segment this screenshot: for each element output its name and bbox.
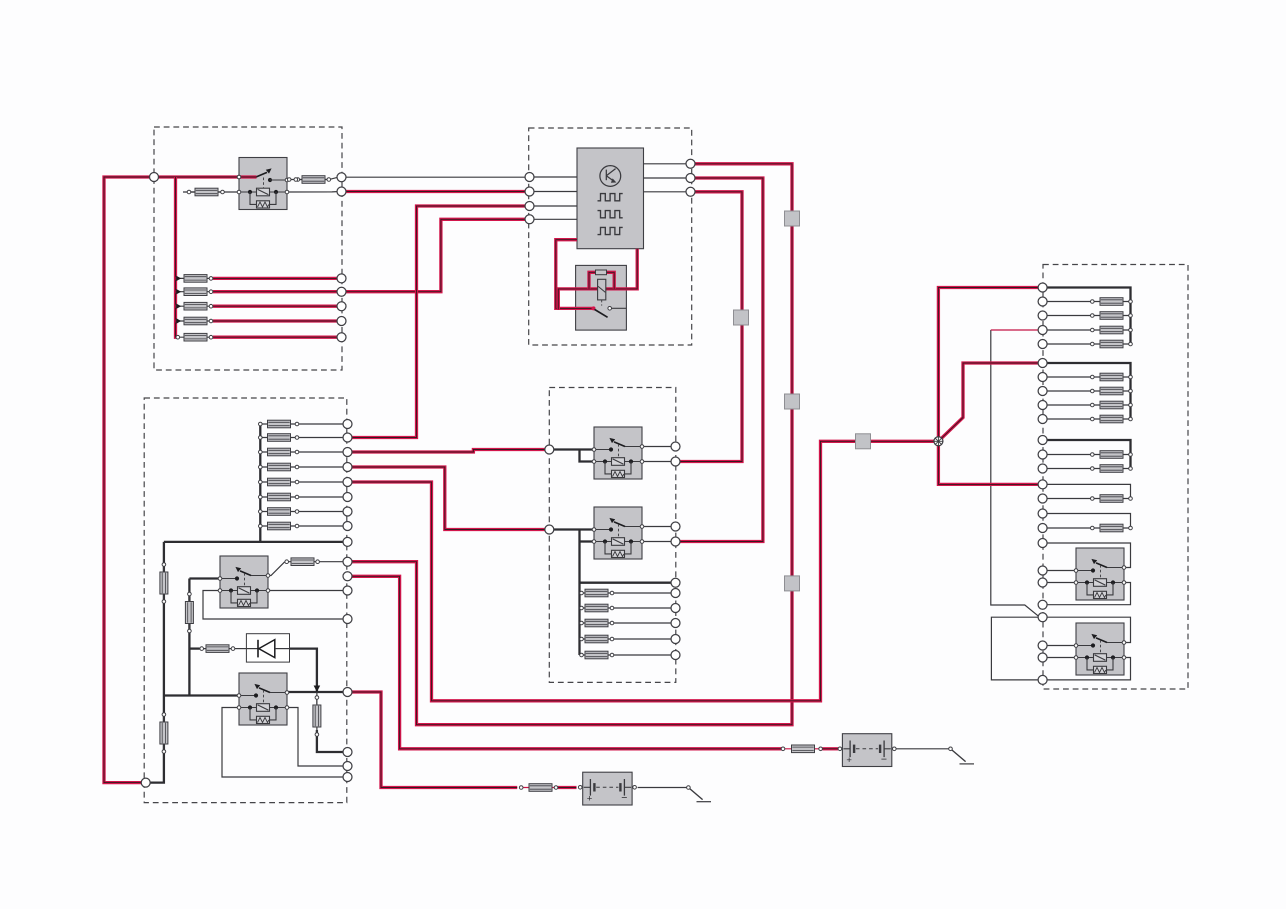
wire: left supply bus with fuses	[150, 542, 164, 783]
svg-text:−: −	[621, 792, 627, 804]
control module A1	[577, 148, 644, 249]
connector: A1 left pin3	[525, 202, 534, 211]
wire: middle box fuse row 1 lead	[614, 592, 671, 594]
connector: right box pin23	[1038, 641, 1047, 650]
connector: K1 output	[337, 173, 346, 182]
fuse F6 (bank A row4)	[180, 317, 213, 325]
wire: K6 input lead	[1047, 570, 1074, 572]
wire: battery G2 negative lead	[638, 787, 687, 789]
fuse F4 (bank A row2)	[180, 288, 213, 296]
wire: fuse row 1 lead to connector	[299, 423, 343, 425]
fuse F23 (K4 supply)	[185, 592, 193, 633]
wire (red): A2 feed loop left	[556, 240, 592, 309]
fuse F18 (bank B row6)	[259, 493, 299, 501]
connector: K2 switch out	[671, 442, 680, 451]
wire (red): main feed left drop	[104, 177, 239, 783]
connector: bank A row2	[337, 287, 346, 296]
wire: fuse row 4 lead to connector	[299, 466, 343, 468]
wire (red): fuse bank stub row1	[176, 277, 179, 280]
connector: K3 coil out	[671, 537, 680, 546]
wire: A1 left pin3 lead	[534, 205, 577, 207]
wire: K4 switch supply chain	[188, 579, 190, 696]
fuse F7 (bank A row5)	[176, 333, 213, 341]
fuse F2 (K1 output)	[296, 176, 331, 184]
wire (red): fuse to battery G2	[558, 786, 577, 789]
wire: A1 right pin3 lead	[644, 191, 687, 193]
relay K3	[592, 507, 644, 559]
wire: K7 coil lead	[1047, 657, 1074, 659]
fuse F38 (right g3 r2)	[1091, 465, 1133, 473]
fuse F31 (right g1 r3)	[1091, 326, 1133, 334]
wire: right box group1 bus	[1047, 288, 1131, 345]
wire: K1 output to fuse F2	[286, 179, 302, 181]
wire: K6 switch out loop	[1047, 543, 1131, 568]
connector: bank A row1	[337, 274, 346, 283]
connector: K1 coil out	[337, 187, 346, 196]
connector: middle fuse row5	[671, 651, 680, 660]
fuse F34 (right g2 r2)	[1091, 387, 1133, 395]
wire: group2 row4 lead	[1047, 418, 1091, 420]
switch S1 (open to ground)	[949, 747, 974, 764]
wire: group1 row4 lead	[1047, 343, 1091, 345]
wire (red): feed into K1 pivot	[239, 175, 257, 178]
wire: top-left box to module A1 pin1	[346, 176, 525, 178]
wire: group4 row lead	[1047, 498, 1091, 500]
wire (red): connector to battery G1 feed	[352, 576, 782, 749]
fuse F33 (right g2 r1)	[1091, 373, 1133, 381]
wire: fuse tap at K5 output	[316, 692, 318, 704]
wire (red): fuse bank stub row3	[176, 305, 179, 308]
connector: right box pin13	[1038, 464, 1047, 473]
wire: A1 left pin2 lead	[534, 191, 577, 193]
component box: fuse/relay box right (dashed)	[1043, 265, 1188, 690]
A2 heater coil	[598, 279, 606, 305]
wire: K1 coil feed stub	[183, 191, 239, 193]
fuse F35 (right g2 r3)	[1091, 401, 1133, 409]
wire: fuse group bus left (bottom-left box)	[259, 424, 261, 542]
wire (red): splice to group2 feed	[941, 363, 1038, 438]
wire: distribution row	[164, 541, 343, 543]
inline connector J3	[785, 394, 800, 409]
A1 icon: pulse wave 2	[598, 211, 623, 218]
fuse F15 (bank B row3)	[259, 448, 299, 456]
inline connector J1	[785, 211, 800, 226]
wire: K2 coil branch	[580, 450, 595, 462]
wire: fuse row 5 lead to connector	[299, 481, 343, 483]
fuse F37 (right g3 r1)	[1091, 451, 1133, 459]
connector: right box pin9	[1038, 401, 1047, 410]
wire: fuse row 6 lead to connector	[299, 496, 343, 498]
connector: K4 coil right	[343, 586, 352, 595]
fuse F17 (bank B row5)	[259, 478, 299, 486]
relay K4	[218, 556, 270, 608]
relay K1	[237, 158, 289, 210]
relay K7	[1074, 623, 1126, 675]
wire: K2 coil out lead	[642, 461, 671, 463]
relay K2	[592, 427, 644, 479]
connector: bank B row3	[343, 448, 352, 457]
A1 icon: intermittent timer	[600, 166, 621, 187]
connector: right box pin5	[1038, 340, 1047, 349]
wire (red): fuse row4 to connector	[213, 319, 337, 322]
relay K6	[1074, 548, 1126, 600]
wire: fuse row 7 lead to connector	[299, 511, 343, 513]
inline connector J2	[734, 310, 749, 325]
wire: fuse row 8 lead to connector	[299, 525, 343, 527]
connector: A1 right pin2	[686, 174, 695, 183]
switch S2 (open to ground)	[687, 786, 711, 802]
wire: K7 coil out loop	[1047, 658, 1131, 680]
fuse F28 (battery G2)	[519, 784, 557, 792]
K1 input pin	[237, 175, 241, 179]
fuse F27 (battery G1)	[781, 745, 822, 753]
wire (red): fuse to battery G1	[822, 747, 838, 750]
battery G1	[838, 734, 896, 767]
connector: right box pin18	[1038, 539, 1047, 548]
connector: bank B row6	[343, 493, 352, 502]
wire: group2 row1 lead	[1047, 376, 1091, 378]
fuse F14 (bank B row2)	[259, 434, 299, 442]
A1 icon: pulse wave 1	[598, 194, 623, 201]
wire (red): splice to group4 feed	[938, 446, 1038, 485]
fuse F8 (middle row1)	[580, 589, 614, 597]
wire (thin red): group1 row3 sense	[991, 329, 1039, 331]
connector: bank A row5	[337, 333, 346, 342]
svg-text:+: +	[846, 755, 852, 766]
fuse F16 (bank B row4)	[259, 463, 299, 471]
connector: bank B row2	[343, 433, 352, 442]
connector: distribution row out	[343, 537, 352, 546]
connector: K5 coil left	[343, 773, 352, 782]
connector: middle fuse row3	[671, 619, 680, 628]
wire: right box group4 bus	[1047, 484, 1131, 498]
wire: group1 row3 lead	[1047, 329, 1091, 331]
wire: A1 left pin1 lead	[534, 176, 577, 178]
connector: bank B row7	[343, 507, 352, 516]
wire: F2 to connector	[325, 177, 337, 179]
connector: right box pin19	[1038, 566, 1047, 575]
connector: right box pin22	[1038, 613, 1047, 622]
wire: K4 switch input	[189, 577, 220, 579]
fuse F30 (right g1 r2)	[1091, 312, 1133, 320]
connector: K4 output	[343, 557, 352, 566]
wire: K2 switch out lead	[642, 446, 671, 448]
wire: K4 output fuse lead	[319, 561, 343, 563]
wire: right box group2 bus	[1047, 363, 1131, 419]
wire (red): lower fuse row3 to K2 input	[352, 450, 545, 453]
A2 resistor (top)	[596, 270, 607, 275]
wire (red): fuse row1 to connector	[213, 277, 337, 280]
connector: K3 switch out	[671, 522, 680, 531]
connector: right box pin3	[1038, 311, 1047, 320]
connector: K2 input	[545, 445, 554, 454]
connector: K3 input	[545, 525, 554, 534]
fuse F32 (right g1 r4)	[1091, 340, 1133, 348]
wire: K5 switch output	[287, 691, 343, 693]
junction marker (arrow)	[314, 686, 321, 693]
junction marker row2	[176, 289, 181, 294]
fuse F21 (left bus upper)	[160, 563, 168, 604]
wire: K3 coil stub	[580, 540, 595, 542]
fuse F24 (diode branch)	[200, 645, 235, 653]
junction marker row3	[176, 304, 181, 309]
wire: fuse row 3 lead to connector	[299, 451, 343, 453]
wire: K5 coil right loop	[287, 708, 343, 767]
wire: A1 left pin4 lead	[534, 218, 577, 220]
wire: A1 right pin2 lead	[644, 177, 687, 179]
connector: right box pin6	[1038, 359, 1047, 368]
wire: middle box fuse row 2 lead	[614, 607, 671, 609]
wire: K3 coil out lead	[642, 541, 671, 543]
component box: control module unit top-middle (dashed)	[529, 128, 692, 345]
connector: K5 coil right	[343, 762, 352, 771]
connector: middle fuse row1	[671, 589, 680, 598]
connector: battery G1 feed	[343, 572, 352, 581]
wire: battery G1 negative lead	[896, 748, 949, 750]
fuse F20 (bank B row8)	[259, 522, 299, 530]
connector: right box pin1	[1038, 283, 1047, 292]
A1 icon: pulse wave 3	[598, 227, 623, 234]
wire: A1 right pin1 lead	[644, 163, 687, 165]
wire: group3 row2 lead	[1047, 468, 1091, 470]
wire: junction return loop	[991, 617, 1038, 680]
wire: group3 row1 lead	[1047, 454, 1091, 456]
connector: right box pin7	[1038, 373, 1047, 382]
wire: K3 switch out lead	[642, 526, 671, 528]
wire (red): splice to group1 feed	[938, 288, 1038, 438]
fuse F36 (right g2 r4)	[1091, 415, 1133, 423]
wire (red): fuse row2 to connector	[213, 290, 337, 293]
connector: K5 output	[343, 688, 352, 697]
wire (red): A2 coil feed	[558, 249, 637, 310]
wire: K4 output diagonal	[268, 562, 285, 576]
connector: right box pin16	[1038, 509, 1047, 518]
wire: long sense line from group1 row3	[991, 330, 1039, 616]
connector: middle feed out	[671, 578, 680, 587]
fuse F1 (K1 coil)	[187, 188, 224, 196]
wire: K4 coil left loop	[203, 591, 343, 620]
wire: K1 coil out to connector	[286, 191, 337, 193]
wire: K5 coil left loop	[222, 708, 343, 778]
fuse F26 (K5 output tap)	[313, 696, 321, 737]
connector: right box pin24	[1038, 653, 1047, 662]
fuse F10 (middle row3)	[580, 619, 614, 627]
switch unit A2 (body)	[576, 265, 627, 330]
wire: K5 switch input	[164, 694, 239, 696]
connector: K4 coil left	[343, 615, 352, 624]
component box: central electronic unit bottom-left (dashed)	[144, 398, 347, 803]
diode V1	[246, 634, 289, 662]
connector: right box pin10	[1038, 415, 1047, 424]
svg-text:−: −	[881, 754, 887, 766]
battery G2	[578, 772, 636, 805]
wire (red): fuse row3 to connector	[213, 305, 337, 308]
wire: K6 coil out loop	[1047, 583, 1131, 605]
wire (red): A2 resistor loop	[589, 272, 614, 289]
connector: bank B row4	[343, 463, 352, 472]
connector: middle fuse row2	[671, 604, 680, 613]
fuse F22 (left bus lower)	[160, 713, 168, 754]
connector: A1 left pin4	[525, 215, 534, 224]
connector: bank B row1	[343, 420, 352, 429]
fuse F25 (K4 output)	[285, 558, 320, 566]
connector: right box pin15	[1038, 494, 1047, 503]
wire: K3 switch input	[554, 528, 594, 530]
wire (red): feed branch to fuse bank	[176, 177, 179, 337]
A2 thermal switch	[592, 306, 627, 317]
wire: group5 row lead	[1047, 527, 1091, 529]
connector: right box pin14	[1038, 480, 1047, 489]
connector: A1 left pin1	[525, 173, 534, 182]
wire: middle box fuse row 4 lead	[614, 638, 671, 640]
wire: K7 input lead	[1047, 645, 1074, 647]
inline connector J4	[785, 576, 800, 591]
connector: K5 fused branch	[343, 748, 352, 757]
connector: right box pin4	[1038, 326, 1047, 335]
wire: K3 coil branch and fuse bus	[578, 530, 580, 656]
connector: A1 left pin2	[525, 187, 534, 196]
connector: bottom-left box ground feed	[141, 778, 150, 787]
wire: diode V1 output	[290, 649, 317, 692]
wire (red): module right pin1 long feed	[352, 164, 792, 725]
wire (red): supply to splice	[352, 441, 934, 701]
fuse F13 (bank B row1)	[259, 420, 299, 428]
connector: right box pin8	[1038, 387, 1047, 396]
junction marker row4	[176, 318, 181, 323]
wire: K4 coil right lead	[268, 590, 343, 592]
wire: fused branch to connector	[317, 730, 343, 752]
wire: K2 switch input	[554, 448, 594, 450]
connector: A1 right pin3	[686, 187, 695, 196]
inline connector J5	[856, 434, 871, 449]
wire: group2 row3 lead	[1047, 404, 1091, 406]
fuse F11 (middle row4)	[580, 635, 614, 643]
connector: right box pin12	[1038, 450, 1047, 459]
wire (red): module pin3 to lower fuse row2	[352, 206, 525, 438]
wire (red): K5 output to battery G2 feed	[352, 692, 517, 788]
connector: right box pin25	[1038, 675, 1047, 684]
connector: right box pin20	[1038, 578, 1047, 587]
connector: top-left box left feed	[150, 173, 159, 182]
fuse F40 (right g5)	[1091, 524, 1133, 532]
svg-text:+: +	[587, 794, 593, 805]
fuse F19 (bank B row7)	[259, 508, 299, 516]
component box: relay unit middle (dashed)	[549, 388, 676, 683]
wire: diode branch	[189, 647, 199, 649]
connector: bank B row5	[343, 478, 352, 487]
connector: right box pin21	[1038, 600, 1047, 609]
wire: junction to K7 switch out	[1047, 617, 1131, 642]
connector: right box pin2	[1038, 297, 1047, 306]
connector: right box pin17	[1038, 524, 1047, 533]
wire (red): lower fuse row4 to K3 input	[352, 467, 545, 530]
junction marker row1	[176, 276, 181, 281]
fuse F39 (right g4)	[1091, 495, 1133, 503]
wire: middle box fuse row 5 lead	[614, 654, 671, 656]
fuse F29 (right g1 r1)	[1091, 298, 1133, 306]
wire: group2 row2 lead	[1047, 390, 1091, 392]
fuse F3 (bank A row1)	[180, 275, 213, 283]
wire: K6 coil lead	[1047, 582, 1074, 584]
component box: relay/fuse unit top-left (dashed)	[154, 127, 342, 370]
connector: right box pin11	[1038, 436, 1047, 445]
connector: middle fuse row4	[671, 635, 680, 644]
wire (red): fuse bank stub row4	[176, 319, 179, 322]
fuse F9 (middle row2)	[580, 604, 614, 612]
wire: group1 row2 lead	[1047, 315, 1091, 317]
connector: A1 right pin1	[686, 159, 695, 168]
splice joint	[934, 437, 943, 446]
wire (red): module pin4 to fuse row2	[346, 219, 525, 291]
connector: bank B row8	[343, 522, 352, 531]
wire (red): coil supply to module pin2	[346, 190, 525, 193]
wire: fuse row 2 lead to connector	[299, 437, 343, 439]
wire: right box group5 bus	[1047, 514, 1131, 529]
wire (red): fuse row5 to connector	[213, 336, 337, 339]
connector pins after K1	[287, 178, 297, 182]
wire (red): fuse bank stub row2	[176, 290, 179, 293]
relay K5	[237, 673, 289, 725]
connector: bank A row4	[337, 317, 346, 326]
wire (red): module right pin3 to K2 coil	[680, 192, 742, 462]
fuse F5 (bank A row3)	[180, 302, 213, 310]
wire: fuse to diode V1	[235, 648, 246, 650]
connector: bank A row3	[337, 302, 346, 311]
wire (red): module right pin2 to K3 coil	[680, 178, 763, 542]
connector: K2 coil out	[671, 457, 680, 466]
wire: middle box fuse row 3 lead	[614, 622, 671, 624]
wire: group1 row1 lead	[1047, 301, 1091, 303]
wire: middle box feed row	[580, 582, 672, 584]
wire: right box group3 bus	[1047, 440, 1131, 469]
fuse F12 (middle row5)	[580, 651, 614, 659]
